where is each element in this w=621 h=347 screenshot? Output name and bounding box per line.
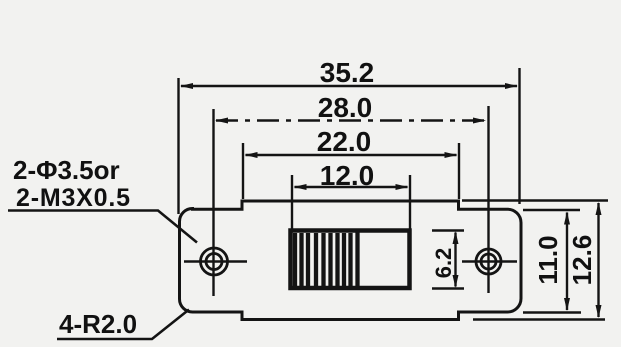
right hole crosshair horizontal [462, 260, 517, 262]
left hole centerline vertical (28.0 extension) [212, 109, 214, 296]
arrows 28.0 [215, 118, 228, 124]
left hole crosshair horizontal [184, 260, 247, 262]
dimension 12.6 line [597, 203, 599, 317]
dimension 12.0 line [295, 186, 408, 188]
arrowheads [180, 83, 602, 318]
left mounting hole [201, 248, 228, 275]
dimension 22.0 extension lines [242, 143, 244, 199]
arrows 11.0 [564, 212, 570, 225]
arrows 12.0 [294, 184, 307, 190]
dimension 35.2 extension lines [177, 78, 179, 214]
svg-text:11.0: 11.0 [533, 235, 563, 284]
dimension 22.0 line [246, 154, 457, 156]
svg-text:35.2: 35.2 [320, 57, 375, 88]
svg-text:2-M3X0.5: 2-M3X0.5 [16, 184, 131, 212]
leader for corner note 4-R2.0 [57, 310, 189, 340]
right mounting hole [476, 249, 501, 274]
svg-text:4-R2.0: 4-R2.0 [59, 309, 137, 339]
dimension 6.2 extension ticks [432, 229, 464, 231]
right hole centerline vertical (28.0 extension) [487, 106, 489, 293]
svg-text:2-Φ3.5or: 2-Φ3.5or [13, 155, 120, 185]
dimension 11.0 extension lines [523, 209, 580, 211]
arrows 35.2 [180, 83, 193, 89]
dimension 6.2 line [454, 233, 456, 287]
dimension 12.0 extension lines [291, 175, 293, 229]
arrows 22.0 [245, 152, 258, 158]
dimension 12.6 extension lines [462, 199, 608, 201]
leader for hole note 2-M3X0.5 [8, 211, 197, 243]
arrows 12.6 [596, 202, 602, 215]
arrows 6.2 [453, 231, 459, 244]
dimension 11.0 line [566, 213, 568, 311]
svg-text:22.0: 22.0 [317, 126, 372, 157]
svg-text:12.6: 12.6 [567, 235, 597, 286]
dimension 35.2 line [181, 85, 517, 87]
svg-text:28.0: 28.0 [318, 92, 373, 123]
slider knob ribs [295, 231, 358, 288]
plate outline [180, 201, 522, 320]
svg-text:6.2: 6.2 [431, 248, 456, 279]
dimension 28.0 line (chain) [216, 119, 485, 121]
svg-text:12.0: 12.0 [320, 160, 375, 191]
slider window rectangle [291, 231, 410, 289]
